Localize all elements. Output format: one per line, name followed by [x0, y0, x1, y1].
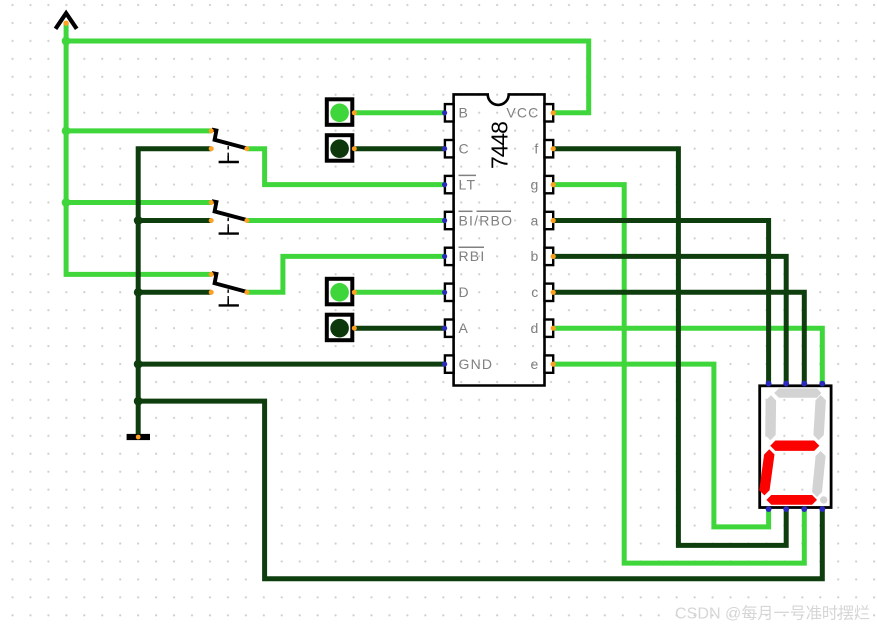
ground symbol GND1 — [127, 434, 150, 440]
svg-text:e: e — [531, 356, 540, 372]
DS1 segment b (off) — [813, 395, 826, 440]
svg-text:D: D — [459, 284, 470, 300]
wire: ground bus to switch S2 bottom contact — [138, 218, 211, 223]
DS1 segment e (lit red) — [759, 449, 774, 495]
junction: ground bus / S3 bottom — [134, 288, 143, 297]
pin label g — [531, 176, 540, 192]
DS1 bottom pin dots (e f g dp) — [766, 506, 826, 512]
DS1 segment g (lit red) — [770, 441, 819, 451]
wire: U1 pin g to display DS1 bottom pin 3 — [553, 185, 804, 563]
svg-text:CSDN @每月一号准时摆烂: CSDN @每月一号准时摆烂 — [675, 605, 870, 623]
switch S2 — [209, 200, 250, 234]
wire: button A to U1 pin A — [354, 326, 446, 331]
DS1 segment c (off) — [812, 451, 826, 497]
switch S3 — [209, 272, 250, 306]
wire: U1 pin b to display DS1 top pin 2 — [553, 256, 786, 383]
wire: U1 pin d to display DS1 top pin 4 — [553, 328, 822, 383]
U1 left pin stubs (B C LT BI/RBO RBI D A GND) — [445, 104, 454, 373]
button D (on, green) — [327, 279, 357, 305]
svg-text:7448: 7448 — [487, 122, 513, 169]
pin label d — [531, 320, 540, 336]
DS1 top pin dots (a b c d) — [766, 381, 826, 387]
pin label D — [459, 284, 470, 300]
DS1 segment d (lit red) — [766, 495, 817, 505]
switch S1 — [209, 128, 250, 162]
pin label A — [459, 320, 470, 336]
pin label b — [531, 248, 540, 264]
pin label C — [459, 141, 470, 157]
svg-text:B: B — [459, 105, 470, 121]
svg-text:c: c — [531, 284, 539, 300]
svg-text:GND: GND — [459, 356, 494, 372]
wire: VCC supply from power bus to U1 VCC pin — [66, 41, 589, 113]
wire: switch S1 bottom contact to ground bus — [138, 149, 211, 435]
svg-text:BI/RBO: BI/RBO — [459, 212, 514, 228]
U1 left pin connection dots (blue, inputs) — [442, 110, 447, 367]
DS1 decimal point (off) — [820, 496, 827, 503]
U1 right pin stubs (VCC f g a b c d e) — [545, 104, 554, 373]
svg-text:LT: LT — [459, 176, 477, 192]
pin label a — [531, 212, 540, 228]
wire: power bus to switch S1 top contact — [66, 128, 211, 133]
wire: ground bus to U1 GND pin — [138, 362, 446, 367]
wire: button B to U1 pin B — [354, 110, 446, 115]
IC U1 7448 body with notch — [454, 94, 545, 385]
junction: ground bus / dp wire — [134, 397, 143, 406]
pin label LT with overline — [459, 175, 477, 192]
wire: U1 pin c to display DS1 top pin 3 — [553, 292, 804, 383]
svg-text:VCC: VCC — [506, 105, 539, 121]
button A (off, dark) — [327, 315, 357, 341]
svg-text:f: f — [534, 141, 539, 157]
svg-text:d: d — [531, 320, 540, 336]
wire: U1 pin e to display DS1 bottom pin 1 — [553, 364, 768, 527]
wire: button D to U1 pin D — [354, 290, 446, 295]
button C (off, dark) — [327, 135, 357, 161]
DS1 segment a (off) — [774, 388, 821, 397]
svg-text:g: g — [531, 176, 540, 192]
svg-text:RBI: RBI — [459, 248, 486, 264]
junction: ground bus / GND wire — [134, 360, 143, 369]
pin label RBI with overline — [459, 247, 486, 264]
wire: button C to U1 pin C — [354, 146, 446, 151]
U1 label 7448 — [487, 122, 513, 169]
pin label VCC — [506, 105, 539, 121]
button B (on, green) — [327, 99, 357, 125]
pin label BI/RBO with overlines — [459, 211, 514, 228]
pin label f — [534, 141, 539, 157]
wire: ground bus to display DS1 bottom pin 4 (dp) — [138, 401, 822, 579]
svg-text:C: C — [459, 141, 470, 157]
wire: ground bus to switch S3 bottom contact — [138, 290, 211, 295]
wire: switch S1 output to U1 LT pin — [247, 149, 447, 185]
junction: power bus / VCC wire — [62, 37, 71, 46]
wire: U1 pin a to display DS1 top pin 1 — [553, 221, 768, 384]
junction: power bus / S1 top — [62, 126, 71, 135]
pin label GND — [459, 356, 494, 372]
wire: power bus to switch S2 top contact — [66, 200, 211, 205]
wire: switch S3 output to U1 RBI pin — [247, 256, 447, 292]
wire: U1 pin f to display DS1 bottom pin 2 — [553, 149, 786, 546]
pin label B — [459, 105, 470, 121]
seven-segment display DS1 body — [760, 386, 831, 508]
pin label c — [531, 284, 539, 300]
pin label e — [531, 356, 540, 372]
watermark CSDN — [675, 605, 870, 623]
junction: power bus / S2 top — [62, 198, 71, 207]
wire: switch S2 output to U1 BI/RBO pin — [247, 218, 447, 223]
svg-text:b: b — [531, 248, 540, 264]
junction: ground bus / S2 bottom — [134, 216, 143, 225]
svg-text:a: a — [531, 212, 540, 228]
wire: power vertical bus to switch S3 top contact — [66, 23, 211, 274]
svg-text:A: A — [459, 320, 470, 336]
DS1 segment f (off) — [765, 395, 776, 440]
power symbol V1 (supply arrow) — [56, 13, 77, 29]
U1 right pin connection dots (orange, outputs) — [551, 110, 556, 367]
